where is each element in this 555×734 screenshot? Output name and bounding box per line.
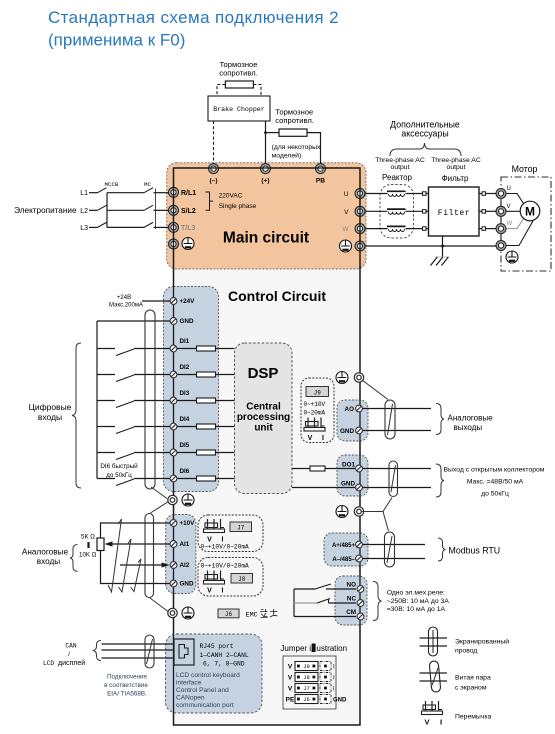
wire GND analog row [101,551,171,584]
control circuit box border [174,168,361,725]
wire MC to terminal L2 [154,209,170,211]
svg-text:0~+10V: 0~+10V [304,401,326,408]
filter box [429,187,480,236]
svg-text:GND: GND [180,318,194,325]
jumper box J7 [198,515,263,552]
svg-text:Стандартная схема подключения: Стандартная схема подключения 2 [48,8,339,27]
terminal motor W [496,221,513,234]
terminal (-) [209,164,219,185]
svg-text:0~+10V/0~20mA: 0~+10V/0~20mA [201,544,250,551]
svg-text:Экранированный: Экранированный [455,638,509,646]
node L1 [80,190,88,197]
breaker MCCB blade L1 [98,188,107,193]
label Three-phase AC output 2 [431,157,481,171]
svg-text:J7: J7 [303,685,310,692]
svg-text:I: I [222,537,224,544]
terminal PE left [169,239,179,249]
jumper row J7 [288,684,335,693]
brace CAN [94,641,102,661]
svg-text:+10V: +10V [180,520,196,527]
label CANH CANL [200,652,249,659]
svg-text:Filter: Filter [438,209,470,218]
svg-text:Подключение: Подключение [107,674,147,681]
svg-text:(применима к F0): (применима к F0) [48,31,185,50]
label LCD keyboard [176,672,240,709]
svg-text:A–/485–: A–/485– [332,557,355,563]
svg-text:Modbus RTU: Modbus RTU [449,546,501,556]
svg-text:аксессуары: аксессуары [401,129,448,139]
legend twisted pair symbol [420,661,448,693]
svg-text:L1: L1 [80,190,88,197]
shield capsule AO [385,400,395,439]
twisted pair squiggle 1 [108,519,122,592]
svg-text:V: V [288,664,293,671]
terminal W [355,224,365,234]
label Тормозное сопротивл. 1 [219,60,258,78]
label relay spec [387,590,450,614]
switch DI3 [116,401,134,408]
label MCCB [105,181,119,188]
svg-text:10K Ω: 10K Ω [79,552,97,559]
wire DI6 left [97,478,115,480]
jumper icon J7 [204,519,225,544]
terminal box AO [337,400,368,441]
wire DI5 right [134,452,170,454]
J9 button [306,387,329,397]
terminal DI2 [170,364,190,378]
shield terminal left 1 [168,495,177,504]
wire DO GND out [361,487,431,489]
terminal DO1 [342,462,362,472]
svg-text:GND: GND [341,481,355,488]
MC linkage [155,189,157,230]
wire chopper to (+) [265,121,267,165]
svg-text:L2: L2 [80,208,88,215]
twisted pair squiggle 2 [119,539,132,592]
svg-text:Control Panel and: Control Panel and [176,687,229,694]
resistor DI3 [177,398,235,403]
wire VFD to reactor row 1 [365,193,388,195]
jumper row J9 [288,662,335,671]
svg-text:входы: входы [37,557,61,566]
label J9 ranges [304,401,326,417]
terminal motor U [496,186,511,199]
label Аналоговые выходы [448,414,494,433]
wire AI2 arrow [120,562,170,567]
wire digital bus [96,321,98,479]
svg-text:Макс. =48В/50 мА: Макс. =48В/50 мА [467,479,524,486]
label Three-phase AC output 1 [375,157,425,171]
wire CAN 3 [102,657,175,659]
shield terminal right 2 [354,507,363,516]
svg-text:LCD control keyboard: LCD control keyboard [176,672,240,679]
label Дополнительные аксессуары [390,120,460,139]
svg-text:6, 7, 8—GND: 6, 7, 8—GND [203,661,245,668]
svg-text:AI2: AI2 [180,562,190,569]
svg-text:Аналоговые: Аналоговые [448,414,494,423]
svg-text:0~20mA: 0~20mA [304,410,326,417]
label MC [144,181,151,188]
svg-text:I: I [440,718,442,727]
motor M circle [520,201,540,221]
terminal DI4 [170,416,190,430]
wire MCCB to MC L2 [107,209,144,211]
switch DI6 [116,479,134,486]
terminal motor PE [496,241,506,251]
label 5K ohm [81,534,95,541]
svg-text:W: W [507,221,513,227]
terminal AI2 [170,562,190,570]
inductor row 1 [387,191,406,196]
switch DI5 [116,453,134,460]
svg-text:MC: MC [144,181,151,188]
svg-text:LCD: LCD [43,660,54,667]
contactor MC blade L2 [144,205,153,210]
svg-text:(для некоторых: (для некоторых [272,144,321,151]
wire DI6 right [134,478,170,480]
wire VFD to reactor row 3 [365,228,388,230]
svg-text:сопротивл.: сопротивл. [275,116,314,125]
terminal A-/485- [332,555,362,563]
svg-text:0~+10V/0~20mA: 0~+10V/0~20mA [201,563,250,570]
PE symbol left 1 [182,494,194,506]
RJ45 connector icon [174,639,194,665]
wire U to motor [505,194,524,204]
label Тормозное сопротивл. 2 [275,108,314,126]
svg-text:Витая пара: Витая пара [455,675,491,682]
terminal strip digital [164,287,219,492]
svg-text:J8: J8 [238,576,246,583]
contactor MC blade L1 [144,188,153,193]
switch DI4 [116,427,134,434]
wire motor terminals bus [500,194,502,246]
svg-text:A+/485+: A+/485+ [332,543,356,549]
PE symbol left [182,238,194,250]
brake chopper box [208,96,270,121]
wire 485+ [361,544,425,546]
wire shield analog top [151,502,169,514]
terminal R/L1 [169,187,197,197]
legend jumper symbol [422,701,443,727]
terminal DI1 [170,338,190,352]
svg-text:с экраном: с экраном [455,685,487,692]
wire ground row [365,245,497,248]
label W [342,226,349,233]
svg-text:U: U [344,191,349,198]
svg-text:DSP: DSP [248,365,279,382]
svg-text:I: I [222,588,224,595]
label 678 GND [203,661,245,668]
svg-text:/: / [68,651,70,658]
shield capsule digital inputs [145,310,155,489]
wire MC to terminal L3 [154,226,170,228]
J7 button [230,522,252,532]
svg-text:Brake Chopper: Brake Chopper [213,106,264,113]
svg-text:RJ45 port: RJ45 port [200,643,234,650]
svg-text:Макс.200мА: Макс.200мА [109,303,143,309]
brace digital inputs [72,343,81,488]
svg-text:GND: GND [180,581,194,588]
svg-text:Цифровые: Цифровые [29,402,72,412]
terminal S/L2 [169,205,196,215]
label RJ45 port [200,643,234,650]
svg-text:M: M [525,205,535,219]
jumper icon J8 [204,571,225,595]
jumper panel frame [283,656,336,709]
label Цифровые входы [29,402,72,422]
svg-text:в соответствие: в соответствие [104,682,148,689]
terminal GND [170,318,194,326]
svg-text:CAN: CAN [65,643,76,650]
main circuit box [167,163,366,269]
wire +24V [142,300,170,302]
wire MC to terminal L1 [154,192,170,194]
svg-text:220VAC: 220VAC [219,193,243,200]
svg-text:J6: J6 [303,696,310,703]
svg-text:DO1: DO1 [342,462,355,469]
svg-text:+24В: +24В [117,295,131,301]
svg-text:дисплей: дисплей [58,659,85,667]
svg-text:Аналоговые: Аналоговые [22,548,69,557]
terminal box DO1 [337,455,368,496]
resistor DI2 [177,372,235,377]
svg-text:DI2: DI2 [180,364,190,371]
terminal (+) [261,164,271,185]
svg-text:V: V [507,204,511,210]
terminal strip analog [166,515,196,594]
wire DSP to DO GND [292,487,355,489]
ground symbol under filter [431,257,450,266]
terminal DI3 [170,390,190,404]
svg-text:моделей): моделей) [272,152,302,160]
svg-text:V: V [308,435,313,442]
terminal U [355,189,365,199]
svg-text:5K Ω: 5K Ω [81,534,95,541]
wire resistor2 to PB [307,133,321,165]
breaker MCCB blade L3 [98,222,107,227]
breaker MCCB blade L2 [98,205,107,210]
wire chopper to (-) [213,121,215,165]
svg-text:~250В: 10 мА до 3А: ~250В: 10 мА до 3А [387,598,450,605]
label 220VAC Single phase [219,193,257,211]
svg-text:J9: J9 [314,390,322,397]
switch DI1 [116,349,134,356]
J6 button [218,609,239,618]
svg-text:=30В: 10 мА до 1А: =30В: 10 мА до 1А [387,606,446,613]
svg-text:выходы: выходы [454,423,483,432]
svg-text:L3: L3 [80,225,88,232]
svg-text:V: V [207,537,212,544]
legend shielded wire symbol [420,627,448,656]
wire filter to motor row 1 [479,192,497,196]
PE symbol right 1 [336,372,348,384]
control box border overlay [174,168,361,725]
label Main circuit [223,230,309,247]
label EIA/TIA568B [104,674,148,698]
wire resistor1 left dashed [217,85,225,97]
terminal AO GND [340,427,362,435]
terminal AI1 [170,541,190,549]
wire filter to motor row 3 [479,227,497,231]
svg-text:I: I [322,435,324,442]
svg-text:J7: J7 [237,525,245,532]
svg-text:U: U [507,186,511,192]
svg-text:V: V [424,718,429,727]
svg-text:V: V [288,686,293,693]
wire MCCB to MC L1 [107,192,144,194]
svg-text:T/L3: T/L3 [181,225,195,232]
node L3 [80,225,88,232]
label Электропитание [14,206,77,215]
shield terminal right 1 [354,373,363,382]
wire DI4 left [97,426,115,428]
svg-text:Control Circuit: Control Circuit [228,288,326,304]
svg-text:W: W [342,226,349,233]
terminal motor V [496,204,511,217]
reactor box [380,185,414,239]
svg-text:Выход с открытым коллектором: Выход с открытым коллектором [444,467,545,474]
svg-text:(+): (+) [261,178,269,185]
svg-text:DI6 быстрый: DI6 быстрый [100,462,138,470]
wire DI2 right [134,374,170,376]
wire shield 485 [362,498,392,532]
wire MCCB to MC L3 [107,226,144,228]
wire filter to ground [442,236,444,257]
terminal DO GND [341,481,362,491]
potentiometer [97,538,104,551]
label DI6 быстрый [100,462,138,479]
svg-text:AO: AO [345,406,355,413]
svg-text:unit: unit [254,423,273,434]
contactor MC blade L3 [144,222,153,227]
svg-text:DI6: DI6 [180,468,190,475]
svg-text:EMC: EMC [246,612,258,620]
svg-text:GND: GND [340,428,354,435]
resistor DI6 [177,476,235,481]
terminal NC [347,596,364,607]
PE symbol right [340,240,352,252]
svg-text:1—CANH 2—CANL: 1—CANH 2—CANL [200,652,249,659]
terminal A+/485+ [332,541,362,549]
inductor row 2 [387,209,406,214]
PE symbol left 2 [182,607,194,619]
label J8 range [201,563,250,570]
wire resistor1 right dashed [253,85,261,97]
label Перемычка [455,714,491,721]
wire filter to motor row 2 [479,210,497,214]
wire AO [361,408,431,410]
wire reactor to filter row 2 [406,210,429,214]
svg-text:CANopen: CANopen [176,695,205,702]
svg-text:Фильтр: Фильтр [442,174,469,183]
shield capsule 485 [385,532,395,567]
svg-text:R/L1: R/L1 [181,190,196,197]
shield capsule CAN [145,635,154,668]
svg-text:V: V [288,675,293,682]
brace relay [373,582,382,621]
svg-text:output: output [391,164,410,171]
svg-text:Single phase: Single phase [219,203,257,210]
label 10K ohm [79,552,97,559]
svg-text:S/L2: S/L2 [181,208,196,215]
svg-text:сопротивл.: сопротивл. [219,69,258,78]
svg-text:ustration: ustration [316,644,347,653]
terminal PB [316,164,326,185]
brace DO [436,464,444,497]
wire L1 to MCCB [89,192,98,194]
wire DI5 left [97,452,115,454]
shield terminal left 2 [168,608,177,617]
jumper row J8 [288,673,335,682]
svg-text:+24V: +24V [180,298,196,305]
svg-text:DI4: DI4 [180,416,190,423]
label Реактор [382,173,412,182]
wire relay CM [294,616,356,618]
terminal box relay [335,576,367,625]
label DO output [444,467,545,498]
label CAN LCD [43,643,85,668]
wire PE to motor [505,221,533,246]
wire AI1 wiper arrow [105,541,171,546]
svg-text:PE: PE [286,697,295,704]
terminal AO [345,405,363,413]
DSP U1 [235,343,293,494]
terminal DI6 [170,468,190,482]
svg-text:NO: NO [347,582,357,589]
brace analog inputs [70,545,78,572]
svg-text:Одно эл.мех.реле:: Одно эл.мех.реле: [387,590,445,597]
wire DI3 left [97,400,115,402]
svg-text:interface: interface [176,680,202,687]
svg-text:DI5: DI5 [180,442,190,449]
svg-text:Электропитание: Электропитание [14,206,77,215]
svg-text:DI3: DI3 [180,390,190,397]
svg-text:V: V [207,588,212,595]
svg-text:Jumper i: Jumper i [280,644,311,653]
svg-text:GND: GND [333,698,347,704]
svg-text:processing: processing [237,412,290,423]
PE symbol right 2 [336,506,348,518]
MCCB linkage bus [106,193,108,228]
wire +10V row [101,523,171,538]
twisted pair squiggle 3 [131,559,142,592]
label Control Circuit [228,288,326,304]
wire DI2 left [97,374,115,376]
wire GND row [97,320,170,322]
terminal box RS485 [324,533,368,566]
terminal CM [346,609,364,620]
svg-text:CM: CM [346,609,356,616]
label Аналоговые входы [22,548,69,567]
wire relay NO [294,584,356,589]
jumper box J9 [301,378,334,443]
svg-text:Перемычка: Перемычка [455,714,491,721]
wire AO GND [361,430,431,432]
wire shield digital to ground [151,487,167,499]
wire shield analog bottom [150,598,168,612]
label +24V max [109,295,143,309]
wire reactor to filter row 3 [406,227,429,231]
wire DI3 right [134,400,170,402]
wire relay NC [294,599,356,604]
shield capsule analog [145,514,154,598]
inductor row 3 [387,226,406,231]
brace accessories [390,143,461,156]
label Мотор [512,164,538,174]
label Витая пара с экраном [455,675,491,692]
label Фильтр [442,174,469,183]
svg-text:входы: входы [38,412,62,422]
